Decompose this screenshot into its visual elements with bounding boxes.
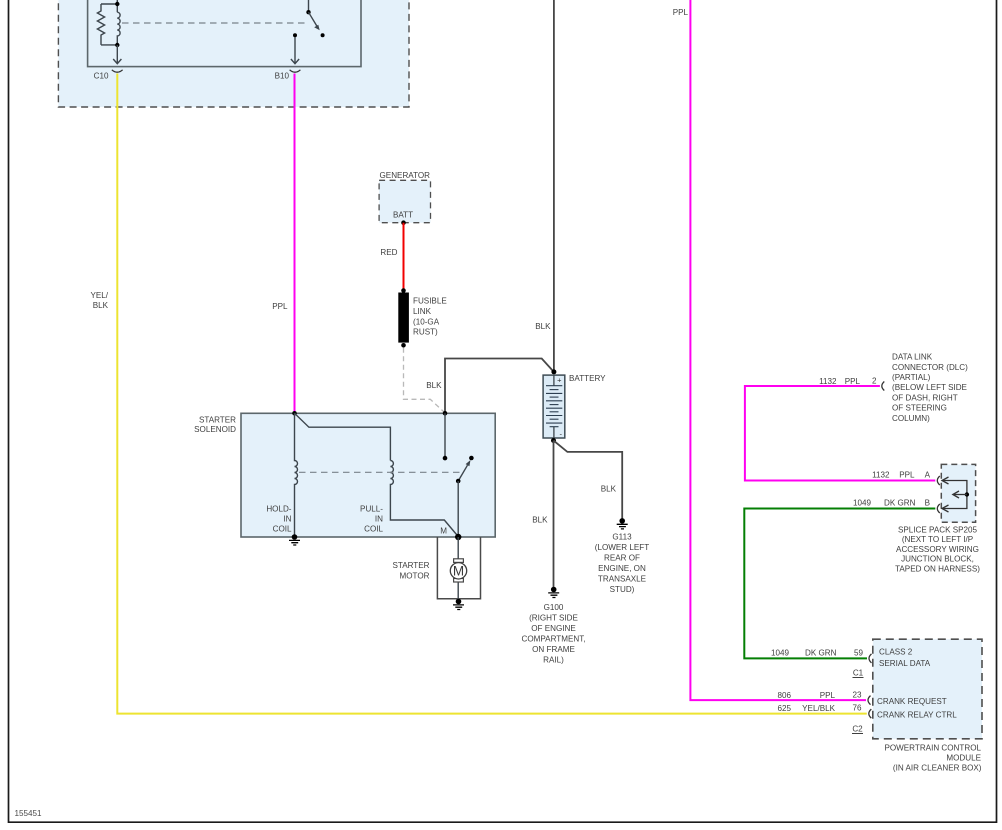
svg-text:BLK: BLK — [535, 322, 551, 331]
relay top rail wire — [101, 3, 117, 5]
svg-text:BATT: BATT — [393, 210, 413, 219]
relay coil feed wire — [116, 0, 118, 12]
svg-text:DK GRN: DK GRN — [805, 649, 837, 658]
svg-text:GENERATOR: GENERATOR — [380, 171, 431, 180]
svg-text:CRANK REQUEST: CRANK REQUEST — [877, 697, 947, 706]
svg-text:155451: 155451 — [15, 809, 43, 818]
relay assembly dashed box (fuse block, top, cut off) — [58, 0, 409, 107]
dashed wire fusible link to solenoid — [404, 348, 445, 413]
arrow to pin B10 — [291, 37, 299, 64]
svg-text:59: 59 — [854, 649, 864, 658]
pin B10 connector — [290, 70, 301, 72]
solenoid linkage dashed — [299, 471, 461, 473]
svg-text:1049: 1049 — [771, 649, 790, 658]
svg-text:B10: B10 — [275, 71, 290, 80]
svg-text:1132: 1132 — [819, 377, 837, 386]
ground hold-in coil — [292, 534, 298, 540]
splice pack internals — [943, 481, 967, 509]
svg-text:CRANK RELAY CTRL: CRANK RELAY CTRL — [877, 710, 957, 719]
svg-text:COIL: COIL — [364, 524, 383, 533]
svg-text:(NEXT TO LEFT I/P: (NEXT TO LEFT I/P — [902, 535, 973, 544]
hold-in coil — [295, 413, 298, 537]
svg-text:76: 76 — [852, 704, 862, 713]
pin 2 connector DLC — [882, 382, 885, 391]
svg-text:MOTOR: MOTOR — [400, 571, 430, 580]
node relay coil bottom — [115, 43, 119, 47]
node relay coil top — [115, 2, 119, 6]
svg-text:G100: G100 — [544, 603, 564, 612]
svg-text:BLK: BLK — [601, 484, 617, 493]
svg-text:C2: C2 — [852, 725, 863, 734]
svg-text:806: 806 — [777, 691, 791, 700]
svg-text:(10-GA: (10-GA — [413, 317, 440, 326]
svg-text:C10: C10 — [94, 71, 109, 80]
svg-text:PULL-: PULL- — [360, 504, 383, 513]
pull-in coil — [390, 461, 458, 537]
wire BLK battery to solenoid — [445, 359, 554, 414]
relay switch B10 contact — [293, 33, 297, 37]
svg-text:POWERTRAIN CONTROL: POWERTRAIN CONTROL — [884, 744, 981, 753]
node relay switch common — [306, 10, 310, 14]
svg-text:YEL/BLK: YEL/BLK — [802, 704, 835, 713]
wire YEL/BLK 625 from C10 to PCM pin 76 — [117, 74, 867, 714]
svg-text:REAR OF: REAR OF — [604, 554, 640, 563]
ground G113 — [619, 518, 625, 524]
svg-text:A: A — [925, 471, 931, 480]
node fusible link bottom — [401, 343, 406, 348]
node switch feed contact — [443, 456, 448, 461]
svg-text:COIL: COIL — [273, 524, 292, 533]
solenoid switch feed — [444, 413, 446, 458]
svg-text:MODULE: MODULE — [946, 754, 981, 763]
svg-text:2: 2 — [872, 377, 877, 386]
svg-text:ENGINE, ON: ENGINE, ON — [598, 564, 646, 573]
wire DK GRN 1049 splice pack to PCM — [744, 509, 935, 659]
svg-text:DK GRN: DK GRN — [884, 499, 916, 508]
svg-text:M: M — [453, 564, 464, 579]
svg-text:1049: 1049 — [853, 499, 872, 508]
node switch NO contact — [469, 456, 474, 461]
svg-text:(IN AIR CLEANER BOX): (IN AIR CLEANER BOX) — [893, 763, 982, 772]
wire PPL from B10 to starter solenoid — [294, 74, 296, 414]
starter solenoid box — [241, 413, 495, 537]
relay switch blade — [309, 12, 317, 26]
pull-in coil branch wire — [295, 413, 391, 460]
svg-text:DATA LINK: DATA LINK — [892, 353, 933, 362]
svg-text:23: 23 — [852, 690, 862, 699]
svg-text:G113: G113 — [612, 533, 632, 542]
node battery negative — [551, 438, 556, 443]
pin 76 connector — [869, 709, 872, 718]
svg-text:IN: IN — [283, 514, 291, 523]
wire pivot to M terminal — [457, 481, 459, 537]
svg-text:OF STEERING: OF STEERING — [892, 404, 947, 413]
pin 59 connector — [869, 654, 872, 663]
svg-text:ACCESSORY WIRING: ACCESSORY WIRING — [896, 545, 979, 554]
svg-text:BLK: BLK — [93, 301, 109, 310]
svg-text:1132: 1132 — [872, 471, 890, 480]
svg-text:(LOWER LEFT: (LOWER LEFT — [595, 543, 649, 552]
svg-text:PPL: PPL — [899, 471, 915, 480]
generator box — [379, 180, 430, 222]
starter motor M — [457, 537, 459, 602]
svg-text:CLASS 2: CLASS 2 — [879, 648, 913, 657]
svg-text:COLUMN): COLUMN) — [892, 414, 930, 423]
ground G100 — [551, 587, 557, 593]
relay inner box — [88, 0, 361, 67]
wire PPL 806 main vertical to PCM pin 23 — [690, 0, 866, 700]
wire BLK battery to G113 — [554, 441, 623, 521]
svg-text:+: + — [557, 376, 562, 385]
node PPL at solenoid — [292, 411, 297, 416]
fusible link (10-GA RUST) — [398, 293, 409, 343]
svg-text:(BELOW LEFT SIDE: (BELOW LEFT SIDE — [892, 383, 968, 392]
relay linkage dashed — [122, 22, 309, 24]
svg-text:SERIAL DATA: SERIAL DATA — [879, 659, 931, 668]
PCM box — [873, 639, 982, 739]
relay bottom rail wire — [101, 44, 117, 46]
wire BLK battery to G100 — [553, 441, 555, 590]
pin C10 connector — [112, 70, 123, 72]
svg-text:ON FRAME: ON FRAME — [532, 645, 575, 654]
svg-text:JUNCTION BLOCK,: JUNCTION BLOCK, — [901, 555, 974, 564]
svg-text:COMPARTMENT,: COMPARTMENT, — [521, 635, 585, 644]
svg-text:SOLENOID: SOLENOID — [194, 425, 236, 434]
resistor (relay suppression) — [97, 4, 104, 45]
node M terminal — [455, 534, 461, 540]
solenoid switch blade — [458, 465, 467, 481]
svg-text:M: M — [440, 526, 447, 535]
svg-text:CONNECTOR (DLC): CONNECTOR (DLC) — [892, 363, 968, 372]
relay coil — [117, 12, 120, 45]
svg-text:PPL: PPL — [272, 302, 288, 311]
svg-text:(RIGHT SIDE: (RIGHT SIDE — [529, 614, 578, 623]
svg-text:BATTERY: BATTERY — [569, 374, 606, 383]
svg-text:YEL/: YEL/ — [90, 291, 108, 300]
pin A connector — [937, 476, 940, 485]
svg-text:PPL: PPL — [673, 8, 689, 17]
svg-text:STUD): STUD) — [610, 585, 635, 594]
splice pack SP205 box — [941, 464, 975, 522]
relay switch NO contact — [321, 33, 325, 37]
svg-text:OF ENGINE: OF ENGINE — [531, 624, 576, 633]
node BLK at solenoid — [443, 411, 448, 416]
svg-text:FUSIBLE: FUSIBLE — [413, 297, 447, 306]
svg-text:LINK: LINK — [413, 307, 432, 316]
ground starter motor — [456, 599, 462, 605]
svg-text:(PARTIAL): (PARTIAL) — [892, 373, 931, 382]
svg-text:PPL: PPL — [845, 377, 861, 386]
svg-text:OF DASH, RIGHT: OF DASH, RIGHT — [892, 393, 958, 402]
svg-text:STARTER: STARTER — [392, 561, 429, 570]
svg-text:SPLICE PACK SP205: SPLICE PACK SP205 — [898, 526, 978, 535]
svg-text:BLK: BLK — [426, 381, 442, 390]
node fusible link top — [401, 288, 406, 293]
starter motor bracket — [437, 537, 480, 599]
pin B connector — [937, 504, 940, 513]
svg-text:PPL: PPL — [820, 691, 836, 700]
svg-text:RAIL): RAIL) — [543, 656, 564, 665]
node switch pivot — [456, 479, 461, 484]
svg-text:RED: RED — [380, 248, 397, 257]
svg-text:B: B — [925, 499, 930, 508]
relay switch common wire — [308, 0, 310, 12]
svg-text:625: 625 — [777, 704, 791, 713]
svg-text:TRANSAXLE: TRANSAXLE — [598, 575, 647, 584]
svg-text:TAPED ON HARNESS): TAPED ON HARNESS) — [895, 564, 980, 573]
svg-text:C1: C1 — [853, 669, 864, 678]
wire BLK battery positive feed from top — [553, 0, 555, 372]
svg-text:STARTER: STARTER — [199, 416, 236, 425]
arrow to pin C10 — [113, 45, 121, 64]
svg-text:IN: IN — [375, 514, 383, 523]
battery — [551, 369, 556, 374]
svg-text:RUST): RUST) — [413, 328, 438, 337]
svg-text:BLK: BLK — [532, 516, 548, 525]
node generator BATT — [401, 220, 406, 225]
wire PPL 1132 DLC to splice pack — [745, 386, 935, 481]
svg-text:HOLD-: HOLD- — [266, 504, 291, 513]
pin 23 connector — [868, 696, 871, 705]
wire RED generator output — [403, 223, 405, 290]
